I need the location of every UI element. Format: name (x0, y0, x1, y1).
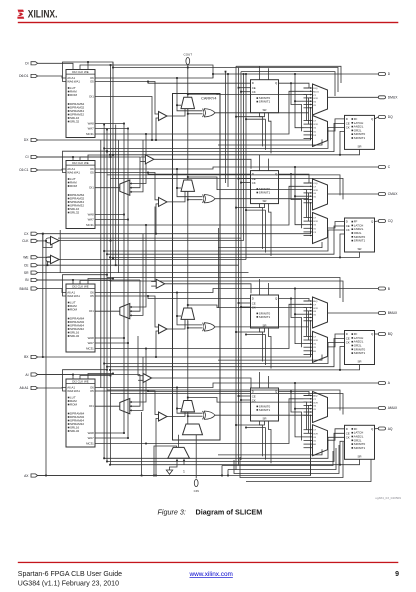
wire ALUT O6 out (95, 383, 378, 388)
junction O5 B (147, 295, 149, 297)
junction O5 C (147, 172, 149, 174)
svg-text:C: C (388, 165, 391, 169)
wire CY B to muxes (188, 305, 307, 336)
svg-text:SRINIT1: SRINIT1 (354, 351, 366, 355)
wire CX down-left vertical (42, 234, 44, 357)
junction CK d5 A (240, 399, 242, 401)
wire C buffer in2 (140, 161, 145, 163)
wire CK distribution (59, 240, 243, 242)
XOR gate B (carry XOR) (203, 323, 205, 331)
junction O6 carry A (176, 387, 178, 389)
svg-text:DQ: DQ (388, 115, 393, 119)
junction CLK C (110, 156, 112, 158)
junction MC31 C (145, 224, 147, 226)
wire DX to D DI1 (95, 97, 152, 141)
mux C DI1 select (120, 180, 130, 195)
junction O6 mux2 C (294, 195, 296, 197)
mux input arrows DOUTMUX (304, 87, 312, 109)
wire inter-quarter feed 2 B (110, 394, 343, 415)
junction BX carry (155, 356, 157, 358)
wire WA bus loop DLUT (63, 62, 114, 82)
wire O6 B to outmux (295, 313, 304, 315)
mux input arrows DFFMUX (304, 120, 312, 140)
junction WE bus (112, 258, 114, 260)
svg-text:SRL32: SRL32 (70, 334, 80, 338)
wire X to A DI1 mux (130, 357, 143, 410)
wire AFFMUX to AFF (328, 429, 345, 440)
junction O6 mux2 B (294, 313, 296, 315)
WE/CE AND gate (46, 255, 59, 263)
wire WE to DLUT (87, 62, 89, 70)
wire O6 D to muxes (295, 74, 304, 128)
svg-text:WA6:WA1: WA6:WA1 (67, 171, 80, 175)
wire ALUT WA7 (95, 437, 128, 439)
wire aux vertical 0b B (268, 283, 270, 295)
junction MC31 A (145, 443, 147, 445)
wire inter-quarter feed 2 D (110, 178, 343, 199)
LUT B (BLUT) (66, 284, 95, 352)
wire aux vertical 0a B (259, 279, 261, 295)
footer rule (18, 562, 399, 563)
wire WE to ALUT (88, 374, 113, 380)
junction aux A (245, 427, 247, 429)
wire XOR B vertical (308, 311, 310, 340)
wire DLUT WA8 (95, 123, 124, 125)
svg-text:O5: O5 (90, 294, 94, 298)
svg-text:XOR: XOR (313, 190, 318, 192)
svg-text:CIN: CIN (194, 489, 199, 493)
junction WA B (106, 274, 108, 276)
bus WA vertical 1 (103, 125, 105, 459)
mux AOUTMUX (313, 392, 328, 423)
junction DX DI1 (151, 139, 153, 141)
wire CLK pin to gate (38, 240, 46, 242)
svg-text:www.xilinx.com: www.xilinx.com (189, 571, 233, 578)
wire carry to XOR B (188, 327, 203, 329)
wire BFFMUX to BFF (328, 334, 345, 347)
junction CE d5 A (238, 395, 240, 397)
junction CI split C (72, 156, 74, 158)
mux input arrows BFFMUX (304, 335, 312, 355)
svg-text:C5Q: C5Q (313, 183, 318, 185)
junction aux C (245, 209, 247, 211)
svg-text:WA8: WA8 (88, 336, 95, 340)
svg-text:Spartan-6 FPGA CLB User Guide: Spartan-6 FPGA CLB User Guide (18, 571, 122, 578)
wire A buffer out (152, 378, 251, 388)
wire CLUT MC31 (95, 224, 146, 226)
wire O6 C to MUXCY sel (177, 187, 181, 189)
svg-text:MC31: MC31 (86, 442, 94, 446)
wire aux vertical 1 D (260, 113, 263, 147)
svg-text:SR: SR (357, 247, 361, 251)
wire B5Q (279, 299, 310, 302)
XOR gate A (carry XOR) (203, 411, 205, 419)
junction CK ff A (103, 457, 105, 459)
carry DI mux buffer C (159, 197, 168, 206)
wire D6:D1 to DLUT A6:A1 (38, 76, 66, 78)
wire CE to A5FF (239, 395, 251, 397)
junction CLK D (110, 64, 112, 66)
svg-text:XOR: XOR (313, 340, 318, 342)
carry DI mux buffer B (159, 325, 168, 334)
wire D5Q (279, 83, 310, 88)
svg-text:MC31: MC31 (86, 223, 94, 227)
svg-text:WA7: WA7 (88, 436, 95, 440)
svg-text:SRINIT1: SRINIT1 (259, 191, 271, 195)
wire carry DI C (167, 191, 185, 202)
mux A DI1 select (120, 399, 130, 414)
input pin DI (31, 62, 38, 65)
wire AQ out (375, 428, 379, 430)
wire WA bus loop ALUT (63, 370, 108, 391)
svg-text:SR: SR (357, 360, 361, 364)
svg-text:DI1: DI1 (89, 309, 94, 313)
wire aux vertical 2 B (265, 335, 267, 366)
wire SR bottom AFF (340, 459, 360, 464)
wire CX bypass (38, 232, 311, 234)
wire aux horizontal C (246, 209, 266, 211)
junction DX carry (155, 139, 157, 141)
junction WA7D bus (106, 129, 108, 131)
wire O5 D to muxes (291, 83, 302, 131)
junction CLK vertical (45, 240, 47, 242)
svg-text:ROM: ROM (70, 308, 78, 312)
junction CE ff C (106, 253, 108, 255)
junction O6 sel A (176, 408, 178, 410)
input pin D6:D1 (31, 74, 38, 77)
output pin C (378, 166, 385, 169)
wire carry DI B (167, 319, 185, 329)
wire inter-quarter feed 1 D (107, 175, 340, 196)
svg-text:MC31: MC31 (313, 91, 319, 93)
wire CE to CFF (107, 226, 345, 254)
svg-text:BQ: BQ (388, 332, 393, 336)
mux input arrows AOUTMUX (304, 395, 312, 417)
wire CLUT WA8 (95, 214, 124, 216)
wire ALUT MC31 (95, 443, 146, 445)
LUT C (CLUT) (66, 161, 95, 229)
bus WE vertical left (112, 62, 114, 260)
svg-text:ROM: ROM (70, 184, 78, 188)
wire CK inverted distribution (58, 237, 241, 239)
junction CLK bus (110, 240, 112, 242)
svg-text:XOR: XOR (313, 402, 318, 404)
wire aux vertical 3 B (269, 328, 272, 369)
svg-text:D: D (346, 117, 348, 121)
wire A wrap 2 (228, 448, 336, 470)
wire X to B DI1 mux (130, 234, 143, 316)
svg-text:CQ: CQ (388, 219, 393, 223)
wire DX bypass (38, 135, 311, 140)
wire chain through MUXCY A (187, 412, 189, 416)
wire O5 C to C5FF D (148, 173, 251, 175)
carry mux MUXCY A (181, 401, 195, 412)
junction WA8 B (123, 337, 125, 339)
storage element B5FF (251, 295, 279, 328)
svg-text:AI: AI (25, 373, 28, 377)
wire O6 C to outmux (295, 195, 304, 197)
wire B buffer in1 (151, 281, 156, 283)
junction WA7 B (127, 342, 129, 344)
junction CE ff B (106, 366, 108, 368)
svg-text:UG384 (v1.1) February 23, 2010: UG384 (v1.1) February 23, 2010 (18, 581, 119, 588)
wire CE distribution (38, 264, 239, 266)
carry select buffer A (143, 374, 152, 383)
svg-text:BX: BX (24, 355, 29, 359)
svg-text:AQ: AQ (388, 427, 393, 431)
wire carry chain COUT (187, 65, 189, 98)
junction MC31 D (145, 133, 147, 135)
wire carry chain B-A (187, 321, 189, 401)
junction O6 mux2 D (294, 100, 296, 102)
junction SR d5 A (235, 424, 237, 426)
wire aux vertical 3 C (269, 204, 272, 256)
wire aux vertical 0a D (259, 66, 261, 80)
svg-text:BMUX: BMUX (388, 311, 398, 315)
wire CE to DFF (107, 123, 345, 151)
XOR gate C (carry XOR) (203, 195, 205, 203)
wire B DI1 (95, 310, 120, 312)
junction O6 mux A (294, 382, 296, 384)
wire XOR D vertical (308, 98, 310, 124)
junction WA8 D (123, 123, 125, 125)
wire O5 A to muxes (291, 392, 302, 441)
svg-text:O5: O5 (90, 171, 94, 175)
junction CY D (187, 93, 189, 95)
svg-text:SR: SR (262, 108, 266, 112)
wire CY C to muxes (188, 177, 307, 218)
svg-text:SR: SR (357, 454, 361, 458)
wire chain through MUXCY C (187, 191, 189, 199)
wire A wrap 1 (222, 451, 333, 466)
svg-text:O5: O5 (90, 80, 94, 84)
svg-text:SRINIT1: SRINIT1 (354, 446, 366, 450)
junction WA7 C (127, 219, 129, 221)
wire DQ out (375, 117, 379, 119)
wire CK to BFF (104, 343, 344, 364)
junction WA8 C (123, 214, 125, 216)
wire carry to XOR D (188, 113, 203, 115)
junction CK ff B (103, 363, 105, 365)
wire DLUT MC31 (95, 133, 146, 135)
wire BLUT MC31 (95, 348, 146, 350)
wire CK to B5FF (241, 306, 251, 308)
svg-text:DI: DI (25, 62, 28, 66)
svg-text:CK: CK (346, 126, 350, 130)
wire CQ out (375, 220, 379, 223)
wire A wrap 2b (227, 470, 229, 476)
junction O6 sel D (176, 104, 178, 106)
wire O5 cascade B-A (137, 336, 139, 376)
wire BX down to AX line (141, 412, 143, 476)
wire WE to CLUT (88, 155, 113, 161)
svg-text:MC31: MC31 (86, 347, 94, 351)
wire O6 A to carry (177, 388, 203, 414)
storage element C5FF (251, 171, 279, 204)
wire O5 B to B5FF D (148, 296, 251, 299)
svg-text:WA6:WA1: WA6:WA1 (67, 294, 80, 298)
output pin D (378, 73, 385, 76)
CIN pin (194, 479, 198, 486)
junction BX-AX (141, 475, 143, 477)
Xilinx logo glyph (17, 10, 24, 19)
wire carry chain D-C (187, 109, 189, 180)
output pin CQ (378, 220, 385, 223)
junction CE (47, 264, 49, 266)
wire MC31 to B DI1 mux (130, 225, 146, 307)
wire C buffer out (154, 159, 251, 169)
wire CI to C DI1 mux (130, 157, 140, 188)
svg-text:XOR: XOR (313, 98, 318, 100)
input pin CX (31, 232, 38, 235)
wire BMUX out (328, 312, 379, 314)
svg-text:WA7: WA7 (88, 218, 95, 222)
input pin CI (31, 155, 38, 158)
wire ALUT O5 (95, 391, 159, 415)
svg-text:C6:C1: C6:C1 (19, 168, 29, 172)
bus SR vertical (235, 66, 237, 470)
input pin AX (31, 474, 38, 477)
junction O5 mux B (290, 298, 292, 300)
junction BX vertical (42, 356, 44, 358)
wire CK to D5FF (241, 91, 251, 93)
junction SR d5 C (235, 207, 237, 209)
junction SR d5 B (235, 331, 237, 333)
junction AX vertical (45, 475, 47, 477)
svg-text:DI1: DI1 (89, 186, 94, 190)
wire inter-quarter feed 1 C (107, 278, 340, 299)
junction WE C (112, 154, 114, 156)
wire B buffer out (165, 284, 251, 294)
svg-text:BI: BI (25, 278, 28, 282)
wire XOR D out (215, 112, 309, 114)
wire BI branch (38, 279, 140, 281)
wire SR to BFF (110, 347, 345, 370)
wire CLK to DLUT (80, 65, 213, 78)
svg-text:B: B (388, 287, 391, 291)
svg-text:DI2 CLK WE: DI2 CLK WE (72, 161, 88, 165)
mux input arrows CFFMUX (304, 217, 312, 237)
wire X to C DI1 mux (130, 140, 143, 192)
output pin DQ (378, 116, 385, 119)
wire SR bottom CFF (340, 252, 360, 257)
svg-text:XOR: XOR (313, 433, 318, 435)
wire aux vertical 0b A (268, 376, 270, 388)
wire CE to C5FF (239, 178, 251, 180)
junction CY A (187, 397, 189, 399)
wire DX to muxes (310, 108, 312, 140)
svg-text:A: A (388, 381, 391, 385)
wire O6 D to outmux (295, 100, 304, 102)
svg-text:DI2 CLK WE: DI2 CLK WE (72, 284, 88, 288)
mux input arrows AFFMUX (304, 429, 312, 449)
wire AMUX out (328, 407, 379, 409)
wire aux vertical 1 C (260, 204, 263, 249)
input pin BX (31, 355, 38, 358)
junction SR ff D (109, 154, 111, 156)
mux COUTMUX (313, 179, 328, 210)
wire O6 A to muxes (295, 383, 304, 437)
wire fb short BFF (218, 355, 322, 361)
svg-text:ROM: ROM (70, 403, 78, 407)
wire O5 C to muxes (291, 174, 302, 228)
LUT D (DLUT) (66, 70, 95, 138)
junction WA8 A (123, 432, 125, 434)
wire aux vertical 0a C (259, 155, 261, 171)
junction WE B (112, 278, 114, 280)
wire A buffer in2 (138, 379, 143, 381)
svg-text:CK: CK (252, 181, 256, 185)
junction SR ff A (109, 464, 111, 466)
wire CK to DFF (104, 127, 344, 148)
flip-flop BFF (345, 331, 375, 365)
wire CYINIT to CIN mux (178, 435, 180, 448)
wire O5 B to muxes (291, 299, 302, 348)
junction CK ff C (103, 250, 105, 252)
wire CLUT WA7 (95, 219, 128, 221)
junction A wrap 2 (227, 475, 229, 477)
wire aux horizontal B (246, 334, 266, 336)
svg-text:CK: CK (346, 436, 350, 440)
svg-text:DX: DX (24, 138, 29, 142)
carry DI mux buffer D (159, 112, 168, 121)
wire DLUT WA7 (95, 128, 128, 130)
input pin SR (31, 271, 38, 274)
svg-text:D: D (252, 296, 254, 300)
wire CY D to muxes (188, 94, 307, 120)
svg-text:CK: CK (252, 90, 256, 94)
output pin BMUX (378, 312, 385, 315)
junction MC31 B (145, 348, 147, 350)
wire O6 D to MUXCY sel (177, 104, 181, 106)
junction O5 D (147, 81, 149, 83)
flip-flop DFF (345, 115, 375, 149)
input pin C6:C1 (31, 168, 38, 171)
wire DI to DLUT DI2 (38, 63, 73, 69)
junction CK d5 B (240, 306, 242, 308)
svg-text:DI2 CLK WE: DI2 CLK WE (72, 379, 88, 383)
wire C buffer in1 (140, 156, 145, 158)
wire SR distribution (38, 272, 249, 274)
wire A wrap 3 (234, 445, 339, 474)
junction AI split A (72, 374, 74, 376)
mux AFFMUX (313, 425, 328, 456)
junction O6 sel C (176, 187, 178, 189)
wire inter-quarter feed 1 B (107, 390, 340, 411)
wire MC31 to C DI1 mux (130, 134, 146, 184)
mux BOUTMUX (313, 297, 328, 328)
wire CE to B5FF (239, 302, 251, 304)
svg-text:XOR: XOR (313, 221, 318, 223)
wire DLUT O6 out (95, 74, 378, 78)
CIN select mux (168, 447, 190, 458)
wire CE to BFF (107, 339, 345, 367)
wire BLUT WA8 (95, 337, 124, 339)
junction WE A (112, 373, 114, 375)
junction SR bottom C (339, 257, 341, 259)
wire BLUT O5 (95, 296, 159, 327)
XOR gate D (carry XOR) (203, 109, 205, 117)
CARRY4 block outline (173, 94, 221, 441)
junction COUT branch (187, 67, 189, 69)
input pin DX (31, 138, 38, 141)
wire WE pin to gate (38, 256, 51, 258)
junction bend2 (112, 67, 114, 69)
junction WA C (106, 150, 108, 152)
wire XOR C out (215, 198, 309, 200)
wire AX to muxes (310, 415, 312, 475)
wire inter vertical C-B (218, 228, 220, 308)
